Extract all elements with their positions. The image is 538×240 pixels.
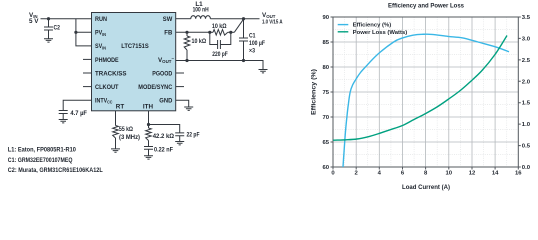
svg-text:RUN: RUN xyxy=(95,16,107,23)
svg-text:C1: C1 xyxy=(249,33,256,40)
wire ITH pin down xyxy=(148,111,150,128)
svg-text:100 µF: 100 µF xyxy=(249,40,265,47)
svg-text:(3 MHz): (3 MHz) xyxy=(119,134,140,141)
svg-text:VOUT: VOUT xyxy=(262,12,276,19)
capacitor C2 xyxy=(44,19,60,39)
chart plot border xyxy=(333,17,518,167)
wire VIN to RUN pin xyxy=(41,18,92,20)
resistor 10 kOhm (feedback top) xyxy=(210,23,235,35)
junction bus PVIN xyxy=(74,31,77,34)
chart y-axis labels right xyxy=(522,15,531,171)
note BOM part numbers xyxy=(8,147,103,174)
svg-text:C1: GRM32EE700107MEQ: C1: GRM32EE700107MEQ xyxy=(8,157,73,164)
junction FB right xyxy=(208,31,211,34)
ground (C2) xyxy=(44,39,53,42)
capacitor 0.22 nF xyxy=(144,141,173,156)
pin stub PHMODE xyxy=(83,58,92,60)
svg-text:1.0 V/15 A: 1.0 V/15 A xyxy=(262,20,283,26)
svg-text:4.7 µF: 4.7 µF xyxy=(70,110,87,117)
chart power loss curve xyxy=(333,36,507,141)
resistor 42.2 kOhm xyxy=(146,128,174,141)
pin stub MODE/SYNC xyxy=(176,86,184,88)
wire diagonal RC to VOUT node xyxy=(234,19,243,32)
junction rail/C1 xyxy=(242,59,245,62)
junction FB cap right xyxy=(229,31,232,34)
svg-text:90: 90 xyxy=(322,15,329,21)
svg-text:3.5: 3.5 xyxy=(522,15,531,21)
svg-text:10 kΩ: 10 kΩ xyxy=(192,38,207,45)
ground (rail) xyxy=(259,70,268,73)
svg-text:Load Current (A): Load Current (A) xyxy=(402,185,450,191)
svg-text:GND: GND xyxy=(159,98,172,105)
pin stub CLKOUT xyxy=(83,86,92,88)
pin stub PGOOD xyxy=(176,72,184,74)
svg-text:60: 60 xyxy=(322,165,329,171)
capacitor C1 100uF x3 xyxy=(239,19,265,61)
svg-text:0: 0 xyxy=(331,171,335,177)
svg-text:16: 16 xyxy=(515,171,522,177)
chart efficiency curve xyxy=(343,34,509,167)
svg-text:85: 85 xyxy=(322,40,329,46)
svg-text:12: 12 xyxy=(469,171,476,177)
capacitor 220 pF xyxy=(210,32,231,58)
svg-text:LTC7151S: LTC7151S xyxy=(121,43,149,50)
svg-text:2: 2 xyxy=(355,171,359,177)
svg-text:80: 80 xyxy=(322,65,329,71)
svg-text:MODE/SYNC: MODE/SYNC xyxy=(138,84,172,91)
wire PVIN/SVIN bus xyxy=(76,19,92,46)
node VIN label (V_IN 5 V) xyxy=(29,12,39,25)
svg-text:Efficiency (%): Efficiency (%) xyxy=(312,69,318,115)
svg-text:0.5: 0.5 xyxy=(522,144,531,150)
svg-text:3.0: 3.0 xyxy=(522,36,531,42)
svg-text:Power Loss (Watts): Power Loss (Watts) xyxy=(353,30,408,36)
chart legend xyxy=(338,23,408,36)
svg-text:4: 4 xyxy=(378,171,382,177)
wire GND pin xyxy=(176,100,189,107)
ground (ITH RC) xyxy=(144,156,153,159)
wire FB pin xyxy=(176,31,210,33)
chart major gridlines xyxy=(333,17,518,167)
capacitor 22 pF xyxy=(149,125,200,142)
svg-text:10 kΩ: 10 kΩ xyxy=(212,23,227,30)
svg-text:Efficiency and Power Loss: Efficiency and Power Loss xyxy=(388,3,464,10)
chart minor gridlines xyxy=(333,17,518,167)
resistor RT 55 kOhm (3 MHz) xyxy=(113,111,140,149)
chart y-axis labels left xyxy=(322,15,329,171)
svg-text:10: 10 xyxy=(446,171,453,177)
svg-text:RT: RT xyxy=(116,104,125,111)
IC U1 LTC7151S xyxy=(92,13,176,111)
inductor L1 100 nH xyxy=(191,1,211,19)
resistor 10 kOhm (FB bottom) xyxy=(184,32,206,60)
svg-text:×3: ×3 xyxy=(249,47,255,54)
svg-text:CLKOUT: CLKOUT xyxy=(95,84,119,91)
wire SW pin to L1 xyxy=(176,18,191,20)
svg-text:1.0: 1.0 xyxy=(522,122,531,128)
junction VOUT node xyxy=(242,17,245,20)
svg-text:220 pF: 220 pF xyxy=(212,51,228,58)
svg-text:ITH: ITH xyxy=(143,104,154,111)
ground (22pF) xyxy=(175,142,184,145)
svg-text:22 pF: 22 pF xyxy=(187,132,200,139)
svg-text:PGOOD: PGOOD xyxy=(152,70,172,77)
chart axis ticks xyxy=(331,17,521,170)
ground (RT) xyxy=(111,149,120,152)
svg-text:70: 70 xyxy=(322,115,329,121)
svg-text:100 nH: 100 nH xyxy=(193,7,209,14)
wire L1 to VOUT node xyxy=(210,18,259,20)
svg-text:SW: SW xyxy=(163,16,173,23)
capacitor 4.7 uF on INTVCC xyxy=(59,100,92,119)
svg-text:8: 8 xyxy=(424,171,428,177)
svg-text:65: 65 xyxy=(322,140,329,146)
svg-text:C2: C2 xyxy=(54,24,61,31)
svg-text:PHMODE: PHMODE xyxy=(95,57,119,64)
svg-text:0.22 nF: 0.22 nF xyxy=(154,147,173,154)
svg-text:1.5: 1.5 xyxy=(522,101,531,107)
svg-text:TRACK/SS: TRACK/SS xyxy=(95,70,127,77)
svg-text:5 V: 5 V xyxy=(29,18,39,25)
svg-text:2.0: 2.0 xyxy=(522,79,531,85)
svg-text:2.5: 2.5 xyxy=(522,58,531,64)
node VOUT label xyxy=(262,12,283,26)
svg-text:75: 75 xyxy=(322,90,329,96)
junction rail/10k xyxy=(185,59,188,62)
svg-text:6: 6 xyxy=(401,171,405,177)
ground (GND pin) xyxy=(184,107,193,110)
svg-text:42.2 kΩ: 42.2 kΩ xyxy=(153,133,174,140)
junction FB left xyxy=(185,31,188,34)
junction ITH node xyxy=(147,123,150,126)
wire VOUT- sense rail xyxy=(176,61,263,70)
junction VIN/C2 xyxy=(47,17,50,20)
svg-text:55 kΩ: 55 kΩ xyxy=(119,126,133,133)
ground (INTVCC) xyxy=(59,120,68,123)
svg-text:L1: Eaton, FP0805R1-R10: L1: Eaton, FP0805R1-R10 xyxy=(8,147,77,154)
svg-text:C2: Murata, GRM31CR61E106KA12L: C2: Murata, GRM31CR61E106KA12L xyxy=(8,167,103,174)
svg-text:14: 14 xyxy=(492,171,499,177)
chart x-axis labels xyxy=(331,171,522,177)
svg-text:0.0: 0.0 xyxy=(522,165,531,171)
pin stub TRACK/SS xyxy=(83,72,92,74)
svg-text:Efficiency (%): Efficiency (%) xyxy=(353,23,392,29)
svg-text:FB: FB xyxy=(164,30,172,37)
